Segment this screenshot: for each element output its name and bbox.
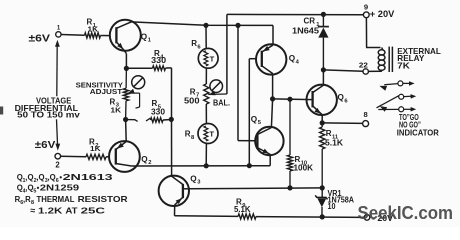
label VR1 value 10 (328, 202, 336, 211)
node dot R3 bottom (123, 117, 128, 122)
svg-text:AT: AT (65, 205, 78, 215)
svg-text:50 TO 150 mv: 50 TO 150 mv (17, 110, 80, 120)
svg-text:330: 330 (151, 107, 165, 117)
resistor R11 (320, 123, 325, 188)
resistor R5 (150, 118, 163, 123)
svg-text:5: 5 (258, 120, 262, 126)
wire Q6 emitter down (321, 115, 323, 123)
svg-text:2N1613: 2N1613 (63, 172, 114, 182)
svg-text:1K: 1K (90, 144, 101, 153)
label Q3 (190, 174, 201, 185)
wire Q4 collector down (272, 74, 274, 99)
label SENSITIVITY (76, 82, 124, 89)
transistor Q2 (109, 141, 140, 172)
svg-text:10: 10 (328, 202, 336, 211)
label TO GO (399, 113, 419, 122)
label R1 value 1K (88, 24, 99, 33)
wire Q6 collector up (322, 70, 324, 85)
terminal -20V (364, 215, 370, 221)
wire R2 to Q2 base (106, 156, 109, 158)
svg-text:INDICATOR: INDICATOR (397, 127, 439, 137)
svg-text:SeekIC.com: SeekIC.com (358, 203, 454, 223)
label 7K (397, 61, 410, 71)
R3 wiper (127, 89, 139, 108)
wire R8 to emitter line (205, 143, 207, 166)
svg-text:500: 500 (184, 96, 200, 106)
wire Q4.C to Q6 base (273, 98, 313, 101)
wire bottom rail right (256, 216, 364, 219)
svg-text:1K: 1K (111, 106, 122, 115)
voltage differential dimension arrow lower (55, 119, 60, 150)
node dot R8 bottom tap (204, 163, 209, 168)
screwdriver adjust symbol R3 (132, 76, 145, 89)
transistor Q4 (256, 44, 286, 74)
transistor Q1 (110, 20, 141, 51)
label pin 2 (55, 161, 60, 170)
resistor R9 (238, 214, 256, 219)
node dot VR1 bottom (320, 214, 325, 219)
wire to R4 (126, 67, 152, 69)
label VR1 (328, 189, 342, 198)
svg-text:ADJUST: ADJUST (90, 89, 123, 96)
wire Q5 base feeder (238, 25, 255, 140)
resistor R4 (153, 66, 166, 71)
svg-text:,Q: ,Q (36, 173, 44, 182)
note line 1 (17, 172, 113, 184)
svg-text:8: 8 (191, 135, 195, 141)
svg-text:2N1259: 2N1259 (40, 183, 80, 193)
node dot CR1 top (321, 12, 326, 17)
svg-text:,Q: ,Q (25, 173, 33, 182)
svg-text:±6V: ±6V (35, 140, 56, 151)
scan mark left edge (0, 107, 3, 115)
watermark SeekIC.com (358, 203, 454, 223)
thermistor R8 (198, 124, 218, 144)
label +/-6V bottom (35, 140, 56, 151)
wire vertical R4-R5-Q3 base (171, 68, 173, 176)
label Q5 (251, 115, 262, 126)
wire to terminal 8 (322, 122, 362, 125)
label ADJUST (90, 89, 123, 96)
transistor Q6 (307, 85, 337, 115)
label R3 (110, 97, 120, 108)
label pin 8 (364, 110, 368, 119)
label R1 (87, 18, 97, 29)
wire +20V rail (227, 13, 364, 15)
svg-text:2: 2 (55, 161, 60, 170)
wire terminal1 to R1 (61, 34, 84, 37)
node dot R4 tap (124, 66, 129, 71)
svg-text:5.1K: 5.1K (234, 204, 251, 214)
resistor R1 (85, 33, 101, 38)
node dot Q4.C Q5.C (270, 96, 275, 101)
label +/-6V top (29, 34, 51, 45)
svg-text:5.1K: 5.1K (325, 138, 343, 148)
svg-text:4: 4 (296, 59, 300, 65)
wire Q1 emitter down (124, 50, 126, 68)
svg-text:25C: 25C (81, 205, 105, 215)
svg-text:CR: CR (304, 17, 316, 26)
label R9 (236, 198, 246, 209)
svg-text:,Q: ,Q (48, 173, 56, 182)
wire Q2 emitter line (131, 165, 270, 167)
wire R1 to Q1 base (101, 35, 111, 37)
label BAL (213, 97, 230, 107)
label pin 1 (57, 25, 61, 31)
label NO GO (399, 121, 421, 130)
wire Q1 collector to Q4 (131, 22, 273, 26)
svg-text:330: 330 (151, 55, 166, 65)
wire terminal9 down to relay (366, 18, 381, 48)
note line 4 (30, 205, 105, 215)
label Q4 (289, 54, 300, 65)
wire R7 to R8 (205, 104, 207, 124)
terminal 22 (363, 69, 368, 74)
svg-text:T: T (209, 130, 214, 139)
label R11 (326, 129, 339, 140)
wire node to R6 (205, 25, 207, 48)
node dot CR1 bottom (321, 67, 326, 72)
node dot VR1 top (320, 185, 325, 190)
wire R5 to vertical (163, 119, 172, 122)
wire Q2 collector up (125, 120, 128, 142)
svg-text:≈: ≈ (30, 205, 35, 215)
label R5 (152, 99, 162, 110)
R7 wiper to +20V (208, 91, 227, 96)
resistor R10 (287, 99, 292, 188)
node dot R10 top (287, 97, 292, 102)
label R2 value 1K (90, 144, 101, 153)
label 50 TO 150 mv (17, 110, 80, 120)
label 1N758A (328, 196, 355, 205)
wire Q3 collector (189, 187, 322, 190)
svg-text:2: 2 (148, 160, 151, 166)
terminal 9 (363, 12, 369, 18)
label CR1 (304, 17, 321, 28)
label R6 (191, 39, 201, 50)
wire Q4 base (249, 59, 256, 166)
svg-text:1N645: 1N645 (292, 26, 319, 36)
svg-text:3: 3 (197, 180, 201, 186)
relay coil (378, 48, 385, 72)
wire R4 to vertical (166, 67, 172, 69)
wire Q3 emitter down (174, 204, 176, 215)
label -20V (372, 214, 394, 223)
node dot R10 bottom (287, 185, 292, 190)
label 1N645 (292, 26, 319, 36)
label pin 22 (359, 60, 368, 69)
contact row2 (399, 94, 417, 99)
label R10 value 100K (294, 163, 314, 173)
zener VR1 (315, 188, 327, 217)
svg-text:BAL.: BAL. (213, 97, 230, 107)
node dot Q6 emitter (320, 120, 325, 125)
label R7 (190, 87, 199, 98)
terminal 1 (+/-6V input) (56, 32, 61, 37)
label R4 value 330 (151, 55, 166, 65)
transistor Q5 (255, 127, 283, 155)
label INDICATOR (397, 127, 439, 137)
contact pole diagonal (377, 96, 399, 112)
label VOLTAGE (36, 95, 72, 105)
node dot Q5 base tap (235, 23, 240, 28)
svg-text:9: 9 (364, 2, 368, 11)
svg-text:22: 22 (359, 60, 368, 69)
node dot R6 top tap (203, 23, 208, 28)
label R3 value 1K (111, 106, 122, 115)
label pin 9 (364, 2, 368, 11)
screwdriver adjust symbol R7 (210, 80, 223, 93)
wire Q5 emitter down (269, 154, 271, 165)
wire down to Q4 emitter (272, 25, 274, 44)
wire R3 bottom to R5 (125, 118, 150, 121)
wire Q5 collector up (271, 99, 272, 128)
label EXTERNAL (397, 46, 441, 56)
svg-text:8: 8 (364, 110, 368, 119)
wire coil bottom to terminal 22 (368, 70, 381, 72)
svg-text:,R: ,R (23, 195, 31, 204)
diode CR1 (318, 14, 329, 70)
label R5 value 330 (151, 107, 165, 117)
svg-text:1: 1 (57, 25, 61, 31)
wire bottom rail left (175, 215, 239, 218)
svg-text:T: T (210, 54, 215, 63)
node dot Q4 base tap (247, 163, 252, 168)
svg-text:6: 6 (197, 44, 201, 50)
note line 2 (17, 183, 80, 195)
label Q2 (141, 155, 151, 166)
label R10 (295, 155, 308, 166)
svg-text:+ 20V: + 20V (370, 9, 395, 19)
label DIFFERENTIAL (15, 103, 78, 113)
node dot R5 right (169, 117, 174, 122)
potentiometer R7 (204, 84, 209, 104)
terminal 8 (363, 121, 369, 127)
svg-text:R: R (185, 130, 191, 139)
note line 3 (15, 194, 128, 206)
svg-text:100K: 100K (294, 163, 314, 173)
label +20V (370, 9, 395, 19)
label R7 value 500 (184, 96, 200, 106)
wire terminal22 to CR1 node (323, 70, 363, 71)
svg-text:±6V: ±6V (29, 34, 51, 45)
svg-text:RESISTOR: RESISTOR (78, 194, 128, 204)
potentiometer R3 (123, 68, 128, 119)
label R8 (185, 130, 195, 141)
label R4 (154, 49, 164, 60)
contact row3 (378, 107, 416, 112)
svg-text:THERMAL: THERMAL (37, 194, 75, 204)
label Q1 (141, 32, 152, 43)
voltage differential dimension arrow upper (55, 40, 60, 97)
label R2 (89, 138, 98, 149)
svg-text:1: 1 (148, 38, 152, 44)
wire R6 to R7 (205, 68, 207, 84)
label R9 value 5.1K (234, 204, 251, 214)
thermistor R6 (198, 48, 218, 68)
wire rail drop to R7 wiper (226, 14, 228, 94)
relay core bars (389, 47, 392, 72)
svg-text:1K: 1K (88, 24, 99, 33)
svg-text:6: 6 (344, 98, 348, 104)
svg-text:R: R (191, 39, 197, 48)
svg-text:1.2K: 1.2K (38, 205, 62, 215)
label RELAY (397, 53, 424, 63)
transistor Q3 (159, 176, 189, 206)
contact row1 (379, 81, 414, 91)
svg-text:,Q: ,Q (25, 184, 33, 193)
resistor R2 (86, 154, 106, 159)
wire terminal2 to R2 (61, 155, 86, 158)
label Q6 (338, 93, 349, 104)
svg-text:7K: 7K (397, 61, 410, 71)
terminal 2 (-6V input) (55, 153, 61, 159)
label R11 value 5.1K (325, 138, 343, 148)
